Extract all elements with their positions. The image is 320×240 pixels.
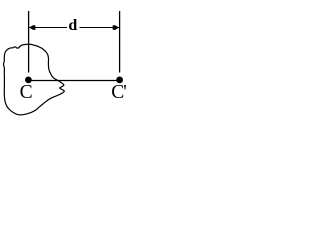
wire C to C' [29,80,120,82]
right extension line [119,11,121,73]
left extension line [28,11,30,73]
left arrowhead [29,25,35,30]
dimension line right segment [80,27,120,29]
right arrowhead [113,25,119,30]
node C' dot [116,77,123,84]
svg-text:d: d [68,17,77,34]
blob region boundary [4,44,65,115]
svg-text:C: C [20,82,33,103]
dimension line left segment [29,27,67,29]
svg-text:C': C' [111,82,126,103]
node C dot [25,77,32,84]
